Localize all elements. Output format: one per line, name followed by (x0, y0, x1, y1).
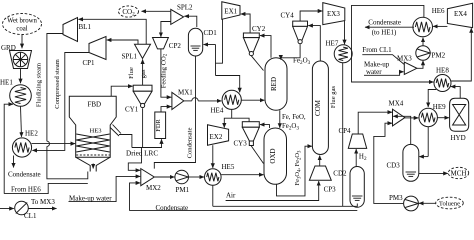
compressor CP2 (153, 38, 169, 49)
wire condensate bottom line (130, 210, 358, 212)
svg-text:HE6: HE6 (432, 7, 445, 15)
svg-text:SPL2: SPL2 (177, 4, 193, 12)
wire CP2 feeding CO2 down to MX1 (161, 49, 171, 97)
heat-exchanger HE8 (434, 75, 451, 92)
wire HE5 line to CD2 bottom (213, 204, 357, 207)
svg-text:CP1: CP1 (83, 59, 96, 67)
svg-text:Flue gas: Flue gas (330, 85, 337, 108)
heat-exchanger HE9 (419, 108, 437, 126)
svg-text:CY3: CY3 (234, 140, 248, 148)
label Make-up water (right) (364, 61, 390, 76)
wire CY3 gas line to EX2 (224, 118, 249, 127)
wire CY4 solids to RED top (281, 44, 300, 59)
wire SPL1 to BL1 (78, 19, 146, 44)
svg-text:EX2: EX2 (210, 133, 223, 141)
splitter SPL2 label (177, 4, 193, 12)
wire FBD top to CY1 (111, 86, 132, 96)
wire SPL2 to CO2 (142, 10, 171, 12)
svg-text:HE3: HE3 (90, 128, 103, 135)
cyclone CY4 label (281, 12, 295, 20)
cyclone CY3 (242, 122, 259, 146)
svg-text:BL1: BL1 (79, 23, 92, 31)
svg-text:PM1: PM1 (176, 186, 190, 194)
wire HE2 to FBD HE3 inlet (32, 143, 76, 145)
dryer FBD bottom funnel (76, 157, 111, 171)
svg-text:EX4: EX4 (454, 10, 467, 18)
blower BL1 label (79, 23, 92, 31)
dryer FBD label (88, 101, 102, 109)
svg-text:Dried LRC: Dried LRC (126, 150, 158, 158)
wire CL1 to MX3 with label To MX3 (28, 198, 56, 209)
wire EX4 to HE6 (433, 25, 447, 27)
wire coal to GRD (21, 35, 23, 49)
pump PM2 label (432, 52, 446, 60)
condenser CD2 label (333, 170, 347, 178)
wire branch to CD1 (204, 44, 216, 46)
pump PM2 (416, 46, 430, 60)
label Condensate (to HE1) (368, 18, 401, 36)
pump PM3 (404, 196, 419, 211)
label Condensate (below HE2) (8, 171, 41, 179)
svg-text:Make-up water: Make-up water (69, 194, 112, 202)
node Toluene (436, 197, 464, 209)
heat-exchanger HE6 (413, 17, 433, 37)
label Fluidizing steam (vertical) (36, 62, 43, 107)
wire HE8 steam to EX4 (451, 28, 471, 81)
compressor CP1 label (83, 59, 96, 67)
cyclone CY2 (243, 33, 259, 56)
label Fe3O4 Fe2O3 (vertical) (294, 150, 302, 185)
wire solids junction to MX2 top port (128, 148, 141, 171)
svg-text:Condensate: Condensate (8, 171, 41, 179)
wire make-up water to MX2 (69, 176, 141, 201)
svg-text:CY1: CY1 (125, 106, 139, 114)
heat-exchanger HE2 label (25, 130, 38, 138)
wire CD1 top to SPL2 (184, 16, 196, 27)
compressor CP1 (89, 37, 106, 60)
svg-text:CP3: CP3 (324, 186, 337, 194)
svg-text:CP2: CP2 (169, 42, 182, 50)
wire HYD top to HE8 (451, 87, 460, 99)
wire BL1 fluidizing steam down to FBD bottom (47, 34, 88, 179)
node CO2 product (119, 6, 139, 18)
wire RED gas to CY2 (260, 36, 271, 58)
heat-exchanger HE1 label (0, 79, 13, 87)
cooler CL1 label (24, 212, 37, 220)
wire CD3 recycle to MX4 (393, 116, 411, 144)
reactor OXD (264, 128, 287, 184)
wire MX1 to HE4 with hop (184, 98, 222, 101)
heat-exchanger HE5 (205, 169, 222, 186)
expander EX4 label (454, 10, 467, 18)
svg-text:PM2: PM2 (432, 52, 446, 60)
cyclone CY3 label (234, 140, 248, 148)
mixer MX3 (404, 62, 417, 75)
heat-exchanger HE2 (12, 138, 31, 157)
wire OXD gas to CY3 (260, 125, 270, 128)
condenser CD1 label (204, 29, 218, 37)
svg-text:Air: Air (226, 192, 236, 200)
node Wet brown coal (feed) (3, 14, 42, 35)
mixer MX2 (141, 169, 155, 186)
wire MX3 to PM2 (417, 61, 423, 69)
label Make-up water (69, 194, 112, 202)
wire condensate from HE6 into HE1 (4, 104, 13, 193)
heat-exchanger HE6 label (432, 7, 445, 15)
expander EX2 (208, 125, 229, 146)
svg-text:(to HE1): (to HE1) (372, 28, 397, 36)
svg-text:OXD: OXD (269, 148, 277, 163)
wire air line to CP3 (226, 181, 319, 200)
compressor CP4 (348, 134, 366, 148)
wire into CD3 arrow (419, 156, 428, 158)
wire EX3 to HE7 (344, 21, 346, 45)
dryer FBD distributor dashed plate (76, 154, 110, 156)
mixer MX4 label (389, 100, 404, 108)
reactor HYD label (451, 134, 466, 142)
svg-text:Condensate: Condensate (368, 18, 401, 26)
expander EX1 label (224, 8, 237, 16)
blower BL1 (63, 18, 78, 42)
wire dried coal from FBD to FDR junction (119, 135, 132, 148)
wire COM gas to CY4 (308, 26, 320, 61)
svg-text:FBD: FBD (88, 101, 102, 109)
svg-text:MCH: MCH (451, 170, 467, 178)
wire SPL1 to CP1 (107, 40, 138, 44)
svg-text:MX4: MX4 (389, 100, 404, 108)
svg-text:HE4: HE4 (211, 107, 224, 115)
grinder GRD (10, 51, 32, 69)
reactor RED bottom to OXD (279, 110, 281, 128)
wire to HE4 top (216, 76, 240, 93)
feeder FDR box (155, 112, 166, 139)
svg-text:From HE6: From HE6 (11, 186, 41, 194)
dryer overflow break mark (110, 125, 121, 137)
wire OXD solids to COM (277, 146, 312, 196)
svg-text:EX3: EX3 (327, 10, 340, 18)
wire HE4 to RED (241, 99, 264, 101)
svg-text:Fluidizing steam: Fluidizing steam (36, 62, 43, 107)
mixer MX2 label (146, 184, 161, 192)
wire MX2 to PM1 (154, 176, 174, 178)
svg-text:MX1: MX1 (178, 89, 193, 97)
wire MX4 to HE9 (405, 117, 418, 119)
reactor HYD (450, 98, 469, 131)
cyclone CY4 (293, 21, 308, 44)
label Compressed steam (vertical) (54, 58, 61, 108)
cyclone CY2 label (252, 25, 266, 33)
svg-text:SPL1: SPL1 (122, 53, 138, 61)
compressor CP3 (309, 166, 331, 180)
wire HE1 to HE2 (21, 106, 22, 137)
pump PM1 label (176, 186, 190, 194)
svg-text:CP4: CP4 (339, 127, 352, 135)
label Dried LRC (126, 150, 158, 158)
mixer MX1 label (178, 89, 193, 97)
wire HE4 bottom to EX2 junction (231, 109, 233, 118)
svg-text:coal: coal (16, 26, 27, 33)
condenser CD1 (188, 28, 202, 56)
wire CD1 condensate down to MX2 (154, 56, 195, 169)
wire FDR to MX1 (161, 107, 171, 112)
grinder GRD label (1, 44, 16, 52)
svg-text:Toluene: Toluene (439, 201, 460, 208)
wire condensate to MX2 bottom port (130, 183, 141, 211)
svg-text:gas: gas (140, 69, 147, 78)
label Condensate (vertical, CD1 leg) (186, 128, 193, 159)
heat-exchanger HE5 label (222, 163, 235, 171)
heat-exchanger HE3 coil (76, 134, 110, 152)
svg-text:HYD: HYD (451, 134, 466, 142)
dryer FBD vessel (69, 96, 116, 157)
svg-text:HE1: HE1 (0, 79, 13, 87)
wire HE7 flue gas down (342, 63, 344, 207)
compressor CP4 label (339, 127, 352, 135)
wire left edge to CL1 (0, 208, 14, 210)
wire CD3 to MCH (419, 172, 448, 174)
heat-exchanger HE7 label (326, 40, 339, 48)
pump PM1 (175, 170, 189, 184)
node MCH (448, 167, 468, 178)
svg-text:FDR: FDR (155, 119, 162, 132)
svg-text:CY2: CY2 (252, 25, 266, 33)
svg-text:HE2: HE2 (25, 130, 38, 138)
wire make-up water to MX3 (364, 72, 404, 76)
svg-text:From CL1: From CL1 (362, 46, 392, 54)
heat-exchanger HE4 (222, 90, 241, 109)
wire CY1 solids down to FDR feed (142, 108, 144, 147)
dryer FBD solids outlet arrow (92, 164, 94, 169)
wire CY2 to EX1 (241, 14, 250, 33)
compressor CP2 label (169, 42, 182, 50)
wire PM1 to HE5 (189, 176, 205, 178)
wire From CL1 to MX3 (362, 55, 404, 65)
label From CL1 (362, 46, 392, 54)
heat-exchanger HE4 label (211, 107, 224, 115)
wire EX1 exhaust down (216, 19, 223, 75)
wire FDR feed line (132, 139, 162, 147)
label Condensate (bottom) (156, 204, 189, 212)
label From HE6 (11, 186, 41, 194)
splitter SPL1 (135, 44, 151, 58)
svg-text:CY4: CY4 (281, 12, 295, 20)
condenser CD3 (403, 144, 419, 181)
wire CY1 gas to SPL1 with Flue gas labels (128, 59, 147, 85)
heat-exchanger HE8 label (436, 67, 449, 75)
svg-text:To MX3: To MX3 (31, 198, 55, 206)
wire HE2 condensate out (13, 156, 15, 168)
svg-text:Flue: Flue (128, 67, 135, 79)
wire toluene riser to MX4 (374, 123, 403, 203)
svg-text:MX2: MX2 (146, 184, 161, 192)
wire From HE6 line (4, 183, 88, 193)
expander EX2 label (210, 133, 223, 141)
cooler CL1 (15, 201, 29, 215)
svg-text:Condensate: Condensate (156, 204, 189, 212)
svg-text:CD1: CD1 (204, 29, 218, 37)
svg-text:COM: COM (314, 99, 322, 116)
splitter SPL2 (171, 9, 184, 24)
wire HE8 effluent through HE9 to CD3 (428, 90, 436, 157)
wire HE5 to OXD (221, 174, 263, 176)
svg-text:HE5: HE5 (222, 163, 235, 171)
svg-text:CD2: CD2 (333, 170, 347, 178)
wire Toluene to PM3 (419, 202, 436, 204)
combustor COM (312, 61, 328, 155)
wire HE5 bottom out (212, 185, 214, 206)
svg-text:Fe, FeO,: Fe, FeO, (282, 114, 306, 121)
wire HE9 to HYD (437, 117, 449, 119)
condenser CD3 label (387, 162, 401, 170)
cyclone CY1 (133, 85, 152, 107)
heat-exchanger HE7 (334, 45, 352, 63)
wire CY3 solids diagonal to OXD (251, 145, 264, 163)
wire EX2 to HE5 (212, 145, 214, 168)
wire PM2 to HE6 (422, 38, 424, 46)
svg-text:Compressed steam: Compressed steam (54, 58, 61, 108)
expander EX3 (323, 3, 345, 25)
pump PM3 label (389, 194, 403, 202)
wire GRD to HE1 (20, 69, 22, 84)
label Flue gas (vertical) (330, 85, 337, 108)
wire CP1 compressed steam down to HE2 (32, 53, 89, 151)
label Feeding CO2 (vertical) (160, 53, 168, 88)
svg-text:CD3: CD3 (387, 162, 401, 170)
wire branch jog (215, 45, 217, 64)
condenser CD2 (350, 167, 364, 208)
svg-text:Wet brown: Wet brown (7, 18, 37, 25)
svg-text:water: water (366, 68, 382, 76)
svg-text:EX1: EX1 (224, 8, 237, 16)
svg-text:HE7: HE7 (326, 40, 339, 48)
svg-text:MX3: MX3 (397, 55, 412, 63)
mixer MX1 (172, 92, 184, 109)
wire CP4 to MX4 top (358, 112, 392, 134)
splitter SPL1 label (122, 53, 138, 61)
wire HE6 condensate out to HE1 (365, 26, 414, 28)
heat-exchanger HE3 label (90, 128, 103, 135)
svg-text:CL1: CL1 (24, 212, 37, 220)
wire CP3 to COM (319, 156, 321, 167)
wire CD2 to CP4 with H2 label (356, 149, 367, 166)
svg-text:RED: RED (270, 77, 278, 91)
wire HE6 top steam loop to HE8 (352, 5, 434, 82)
svg-text:Condensate: Condensate (186, 128, 193, 159)
label Air (226, 192, 236, 200)
wire CY2 solids to RED (251, 56, 263, 71)
heat-exchanger HE9 label (433, 103, 446, 111)
expander EX4 (447, 3, 472, 27)
mixer MX3 label (397, 55, 412, 63)
heat-exchanger HE1 (10, 85, 32, 107)
svg-text:PM3: PM3 (389, 194, 403, 202)
expander EX1 (222, 2, 240, 20)
reactor RED (265, 58, 287, 111)
label Fe FeO Fe2O3 (282, 114, 306, 132)
cyclone CY1 label (125, 106, 139, 114)
expander EX3 label (327, 10, 340, 18)
mixer MX4 (393, 109, 405, 126)
compressor CP3 label (324, 186, 337, 194)
svg-text:HE8: HE8 (436, 67, 449, 75)
wire SPL2 to CP2 (161, 22, 171, 37)
label Fe2O3 (CY4 return) (293, 57, 311, 67)
svg-text:HE9: HE9 (433, 103, 446, 111)
wire CY4 gas to EX3 (300, 11, 322, 21)
